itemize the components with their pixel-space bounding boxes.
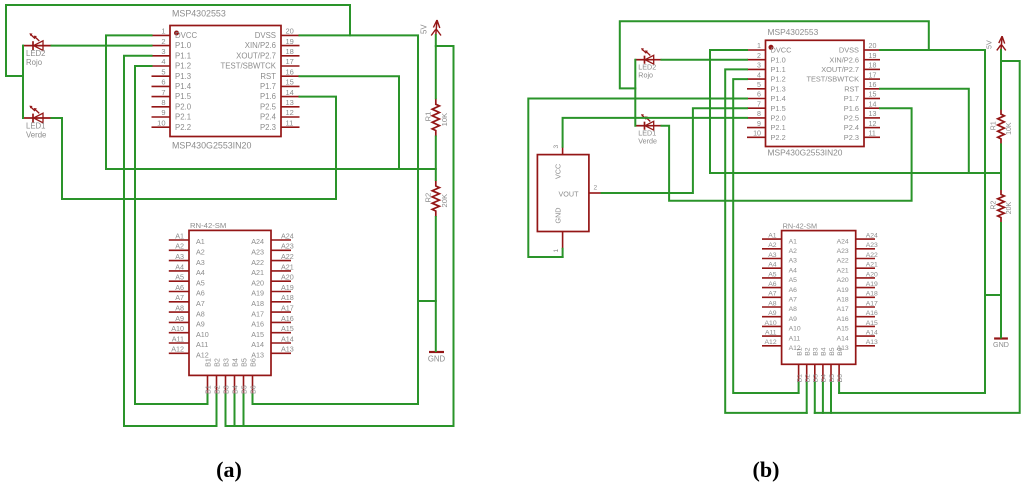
svg-text:A16: A16 (281, 314, 294, 323)
svg-text:A22: A22 (837, 258, 849, 265)
svg-text:LED1: LED1 (638, 129, 656, 137)
svg-text:A16: A16 (866, 310, 878, 317)
svg-text:B6: B6 (837, 347, 844, 356)
IC U2(a) pin B2 (212, 358, 221, 394)
svg-text:A8: A8 (789, 306, 798, 313)
svg-text:B4: B4 (821, 374, 828, 383)
IC U2(a) pin A13 (251, 345, 294, 360)
svg-text:P2.5: P2.5 (844, 114, 859, 123)
svg-text:MSP4302553: MSP4302553 (172, 9, 226, 19)
svg-text:10K: 10K (1006, 122, 1013, 135)
svg-text:P2.4: P2.4 (844, 123, 859, 132)
svg-text:(b): (b) (753, 457, 780, 482)
IC U1(a) pin 6 P1.4 (152, 78, 192, 91)
IC U1(b) pin 10 P2.2 (747, 130, 786, 142)
IC U1(a) pin 12 P2.4 (260, 108, 300, 121)
svg-text:A17: A17 (866, 300, 878, 307)
svg-text:MSP4302553: MSP4302553 (768, 27, 819, 37)
IC U2(b) pin B6 (837, 347, 844, 383)
wire (a) 5V to R1 (435, 35, 437, 98)
power label 5V (b) (986, 40, 994, 49)
IC U2(a) pin A15 (251, 324, 294, 339)
svg-text:A24: A24 (866, 233, 878, 240)
IC U1(a) value label (172, 141, 251, 151)
svg-text:P2.2: P2.2 (175, 123, 191, 132)
IC U2(a) pin A19 (251, 283, 294, 298)
svg-text:R1: R1 (423, 112, 432, 122)
svg-text:A9: A9 (789, 316, 798, 323)
svg-text:P2.4: P2.4 (260, 113, 277, 122)
svg-text:20K: 20K (440, 194, 449, 208)
svg-text:P1.3: P1.3 (771, 84, 786, 93)
IC U2(b) pin A5 (762, 271, 797, 284)
svg-text:DVSS: DVSS (255, 31, 276, 40)
wire (a) B5 drop (243, 395, 245, 427)
svg-text:P1.7: P1.7 (844, 94, 859, 103)
svg-text:9: 9 (757, 120, 761, 128)
wire (a) RST to divider junction (300, 76, 400, 169)
IC U2(a) pin A5 (169, 273, 205, 288)
svg-text:B6: B6 (248, 385, 257, 394)
IC U1(b) pin 4 P1.2 (747, 71, 786, 83)
svg-text:18: 18 (286, 47, 294, 56)
svg-text:XOUT/P2.7: XOUT/P2.7 (821, 65, 859, 74)
wire (b) P2.0 to sensor VCC (563, 118, 747, 147)
svg-text:A23: A23 (837, 248, 849, 255)
IC U1(a) pin 18 XOUT/P2.7 (236, 47, 299, 60)
svg-text:A18: A18 (251, 299, 264, 308)
svg-text:RST: RST (844, 84, 859, 93)
svg-text:A15: A15 (281, 324, 294, 333)
svg-text:A22: A22 (866, 252, 878, 259)
IC U2(a) pin B3 (221, 358, 230, 394)
IC U1(b) pin 11 P2.3 (844, 130, 880, 142)
svg-text:A22: A22 (251, 258, 264, 267)
IC U2(a) pin A7 (169, 293, 205, 308)
IC U1(b) pin 19 XIN/P2.6 (829, 52, 880, 64)
resistor R1 labels (991, 121, 1014, 135)
svg-text:A11: A11 (196, 340, 208, 349)
svg-text:A12: A12 (765, 339, 777, 346)
svg-text:TEST/SBWTCK: TEST/SBWTCK (806, 75, 859, 84)
IC U2(a) pin A18 (251, 293, 294, 308)
IC U2(a) pin A6 (169, 283, 205, 298)
svg-text:4: 4 (161, 57, 165, 66)
IC U2(b) pin B2 (805, 347, 812, 383)
svg-text:MSP430G2553IN20: MSP430G2553IN20 (172, 141, 251, 151)
IC U2(a) pin A10 (169, 324, 209, 339)
svg-text:A8: A8 (196, 309, 205, 318)
svg-text:1: 1 (757, 42, 761, 50)
wire (a) B6 drop (252, 395, 254, 405)
wire (b) LED2 anode to P1.0 (662, 59, 748, 61)
svg-text:DVCC: DVCC (175, 31, 197, 40)
svg-text:13: 13 (869, 110, 877, 118)
svg-text:P2.1: P2.1 (771, 123, 786, 132)
svg-text:P1.6: P1.6 (260, 92, 276, 101)
svg-text:P1.0: P1.0 (771, 55, 786, 64)
svg-text:P1.7: P1.7 (260, 82, 276, 91)
IC U2(b) RN-42-SM body (782, 231, 856, 365)
IC U2(b) pin A15 (837, 320, 878, 333)
svg-text:A4: A4 (789, 267, 798, 274)
IC U2(b) pin A12 (762, 339, 801, 352)
IC U1(b) pin 17 TEST/SBWTCK (806, 71, 880, 83)
IC U2(b) pin A11 (762, 330, 800, 343)
IC U1(b) pin 5 P1.3 (747, 81, 786, 93)
svg-text:P1.2: P1.2 (175, 62, 191, 71)
svg-text:B1: B1 (203, 385, 212, 394)
svg-text:B1: B1 (203, 358, 212, 367)
IC U1(a) pin 17 TEST/SBWTCK (221, 57, 300, 70)
svg-text:16: 16 (286, 67, 294, 76)
svg-text:A1: A1 (768, 233, 777, 240)
svg-text:A10: A10 (196, 330, 209, 339)
IC U1(b) pin 9 P2.1 (747, 120, 786, 132)
svg-text:A20: A20 (281, 273, 294, 282)
svg-text:A2: A2 (789, 248, 798, 255)
svg-text:P1.2: P1.2 (771, 75, 786, 84)
IC U2(a) pin B6 (248, 358, 257, 394)
power symbol 5V (a) (431, 20, 441, 36)
svg-text:P1.5: P1.5 (771, 104, 786, 113)
IC U2(a) pin A22 (251, 252, 294, 267)
svg-text:LED2: LED2 (638, 63, 656, 71)
svg-text:P1.5: P1.5 (175, 92, 192, 101)
IC U1(a) MSP430 body (170, 26, 281, 137)
svg-text:B3: B3 (813, 347, 820, 356)
svg-text:A19: A19 (866, 281, 878, 288)
IC U1(b) pin 1 DVCC (747, 42, 792, 54)
IC U1(b) pin 20 DVSS (839, 42, 880, 54)
svg-text:RN-42-SM: RN-42-SM (190, 221, 226, 230)
LED LED2 labels (26, 49, 46, 67)
svg-text:A8: A8 (768, 300, 777, 307)
IC U3(b) pin 3 stub (553, 145, 563, 155)
IC U1(a) pin 14 P1.6 (260, 88, 300, 101)
svg-text:7: 7 (757, 100, 761, 108)
wire (a) R2 to GND (435, 217, 437, 351)
wire (a) 5V branch to B3-B5 (226, 46, 454, 426)
IC U1(a) pin 1 DVCC (152, 27, 198, 40)
svg-text:R2: R2 (423, 193, 432, 203)
svg-text:A3: A3 (175, 252, 184, 261)
svg-text:B1: B1 (796, 347, 803, 356)
svg-text:A1: A1 (196, 237, 205, 246)
IC U2(b) pin A21 (837, 262, 878, 275)
svg-text:1: 1 (553, 249, 560, 253)
svg-text:A6: A6 (789, 287, 798, 294)
svg-text:Rojo: Rojo (638, 71, 653, 79)
wire (a) B3 drop (225, 395, 227, 427)
svg-text:Verde: Verde (26, 130, 46, 139)
IC U2(a) pin B5 (239, 358, 248, 394)
IC U3(b) pin GND name (554, 208, 563, 224)
wire (b) P1.5 to sensor VOUT (602, 108, 747, 193)
svg-text:P1.6: P1.6 (844, 104, 859, 113)
ground symbol (a) (429, 351, 444, 353)
wire (b) B2 drop (806, 383, 808, 413)
svg-text:A9: A9 (175, 314, 184, 323)
wire (b) P1.2 to B1 (733, 79, 798, 393)
IC U2(b) pin A20 (837, 271, 878, 284)
IC U1(b) name label (768, 27, 819, 37)
svg-text:A6: A6 (175, 283, 184, 292)
wire (b) B6 drop (838, 383, 840, 393)
svg-text:TEST/SBWTCK: TEST/SBWTCK (221, 62, 277, 71)
svg-text:1: 1 (161, 27, 165, 36)
IC U2(b) pin A22 (837, 252, 878, 265)
svg-text:A16: A16 (251, 320, 264, 329)
svg-text:A18: A18 (837, 297, 849, 304)
LED LED2 labels (638, 63, 656, 79)
IC U2(a) pin A14 (251, 334, 294, 349)
IC U3(b) pin 2 stub (589, 185, 602, 194)
svg-text:A10: A10 (171, 324, 184, 333)
svg-text:P2.0: P2.0 (771, 114, 786, 123)
svg-text:A14: A14 (837, 335, 849, 342)
IC U2(b) pin A19 (837, 281, 878, 294)
svg-text:2: 2 (161, 37, 165, 46)
IC U2(b) pin A1 (762, 233, 797, 246)
svg-text:B2: B2 (212, 358, 221, 367)
svg-text:A9: A9 (768, 310, 777, 317)
IC U2(a) pin A16 (251, 314, 294, 329)
wire (a) LED2 anode to P1.0 (52, 45, 152, 47)
svg-text:3: 3 (553, 145, 560, 149)
svg-text:B5: B5 (239, 385, 248, 394)
svg-text:P2.0: P2.0 (175, 102, 192, 111)
svg-text:18: 18 (869, 62, 877, 70)
IC U2(a) pin A17 (251, 304, 294, 319)
IC U1(a) pin 16 RST (260, 67, 299, 80)
svg-text:R1: R1 (991, 121, 998, 130)
resistor R2 20K (998, 189, 1005, 223)
wire (b) LED2 cathode to LED1 cathode (634, 60, 636, 126)
IC U2(a) pin A1 (169, 231, 205, 246)
svg-text:A5: A5 (175, 273, 184, 282)
IC U2(a) pin A12 (169, 345, 209, 360)
wire (b) top rail DVSS to LEDs (620, 21, 929, 88)
svg-text:5V: 5V (986, 40, 994, 49)
svg-text:XIN/P2.6: XIN/P2.6 (829, 55, 859, 64)
svg-text:RN-42-SM: RN-42-SM (783, 222, 817, 231)
svg-text:14: 14 (286, 88, 294, 97)
caption (a) (216, 457, 242, 482)
ground symbol (b) (994, 337, 1008, 339)
IC U1(a) pin 19 XIN/P2.6 (245, 37, 300, 50)
svg-text:P1.0: P1.0 (175, 41, 192, 50)
svg-text:11: 11 (869, 130, 876, 138)
IC U1(a) pin 5 P1.3 (152, 67, 192, 80)
IC U1(b) pin 12 P2.4 (844, 120, 880, 132)
svg-text:Verde: Verde (638, 137, 657, 145)
svg-text:A14: A14 (866, 330, 878, 337)
svg-text:GND: GND (993, 341, 1009, 349)
svg-text:A21: A21 (251, 268, 264, 277)
svg-text:B2: B2 (805, 347, 812, 356)
wire (a) LED2 cathode to LED1 cathode (22, 46, 24, 118)
svg-text:19: 19 (869, 52, 877, 60)
svg-text:11: 11 (286, 118, 294, 127)
wire (b) DVCC divider junction line (710, 50, 1001, 173)
svg-text:3: 3 (161, 47, 165, 56)
IC U2(a) RN-42-SM body (189, 230, 271, 375)
IC U1(a) pin 2 P1.0 (152, 37, 192, 50)
IC U3(b) pin VCC name (554, 164, 563, 179)
IC U2(b) pin A7 (762, 291, 797, 304)
svg-text:14: 14 (869, 100, 877, 108)
power label 5V (a) (419, 24, 428, 34)
LED LED2 (Rojo) (635, 48, 661, 64)
svg-text:A23: A23 (866, 242, 878, 249)
wire (b) sensor GND pin drop (562, 249, 564, 257)
IC U2(b) pin A18 (837, 291, 878, 304)
IC U2(a) pin A9 (169, 314, 205, 329)
svg-text:R2: R2 (991, 201, 998, 210)
IC U2(a) pin A21 (251, 262, 294, 277)
svg-text:A13: A13 (281, 345, 294, 354)
svg-text:A20: A20 (866, 271, 878, 278)
svg-text:A10: A10 (789, 326, 801, 333)
svg-text:10: 10 (753, 130, 761, 138)
IC U2(b) pin A4 (762, 262, 797, 275)
wire (a) top rail DVSS to LEDs (6, 5, 350, 76)
wire (a) B1 drop (207, 395, 209, 405)
IC U2(a) name label (190, 221, 226, 230)
svg-text:P2.3: P2.3 (260, 123, 276, 132)
svg-text:17: 17 (869, 71, 877, 79)
IC U3(b) sensor body (537, 155, 589, 232)
svg-text:A20: A20 (837, 277, 849, 284)
svg-text:A5: A5 (789, 277, 798, 284)
svg-text:A11: A11 (765, 330, 777, 337)
resistor R1 labels (423, 112, 449, 127)
LED LED1 labels (26, 122, 46, 140)
IC U2(a) pin A3 (169, 252, 205, 267)
caption (b) (753, 457, 780, 482)
IC U2(b) pin A2 (762, 242, 797, 255)
wire (a) B2 drop (216, 395, 218, 427)
svg-text:10K: 10K (440, 113, 449, 127)
wire (b) P1.6 to LED1 anode (662, 108, 912, 201)
IC U2(a) pin A23 (251, 242, 294, 257)
svg-text:A2: A2 (196, 248, 205, 257)
svg-text:A18: A18 (281, 293, 294, 302)
IC U2(b) pin A3 (762, 252, 797, 265)
svg-text:A4: A4 (196, 268, 205, 277)
wire (b) P1.4 to sensor GND (528, 99, 747, 258)
IC U1(b) pin-1 dot (769, 45, 774, 50)
svg-text:A23: A23 (251, 248, 264, 257)
svg-text:B6: B6 (248, 358, 257, 367)
IC U1(b) pin 14 P1.6 (844, 100, 880, 112)
IC U1(b) pin 3 P1.1 (747, 62, 786, 74)
IC U2(b) pin B4 (821, 347, 828, 383)
svg-text:A4: A4 (175, 262, 184, 271)
IC U3(b) pin 1 stub (553, 232, 563, 253)
wire (b) B5 drop (830, 383, 832, 413)
svg-text:A17: A17 (281, 304, 294, 313)
wire (b) P1.1 to B2 (725, 69, 807, 413)
svg-text:A6: A6 (196, 289, 205, 298)
svg-text:B3: B3 (221, 385, 230, 394)
svg-text:A21: A21 (866, 262, 878, 269)
svg-text:6: 6 (161, 78, 165, 87)
svg-text:A11: A11 (789, 335, 801, 342)
svg-text:20: 20 (286, 27, 294, 36)
svg-text:P2.3: P2.3 (844, 133, 859, 142)
IC U1(a) pin 7 P1.5 (152, 88, 192, 101)
svg-text:A19: A19 (281, 283, 294, 292)
svg-text:A2: A2 (175, 242, 184, 251)
svg-text:A23: A23 (281, 242, 294, 251)
IC U1(a) pin 10 P2.2 (152, 118, 192, 131)
wire (b) 5V branch to B3-B5 (815, 61, 1020, 413)
svg-text:7: 7 (161, 88, 165, 97)
IC U1(b) pin 2 P1.0 (747, 52, 786, 64)
svg-text:A7: A7 (768, 291, 777, 298)
svg-text:XOUT/P2.7: XOUT/P2.7 (236, 51, 276, 60)
IC U2(b) pin A23 (837, 242, 878, 255)
svg-text:A13: A13 (866, 339, 878, 346)
svg-text:A21: A21 (837, 267, 849, 274)
IC U1(b) pin 7 P1.5 (747, 100, 786, 112)
svg-text:B4: B4 (821, 347, 828, 356)
svg-text:A14: A14 (281, 334, 294, 343)
wire (b) B3 drop (814, 383, 816, 413)
wire (b) R2 to GND (1000, 223, 1002, 338)
wire (a) P1.6 to LED1 anode (52, 97, 337, 199)
svg-text:P1.1: P1.1 (771, 65, 786, 74)
ground label (a) (428, 355, 446, 364)
svg-text:B2: B2 (212, 385, 221, 394)
IC U2(b) pin A14 (837, 330, 878, 343)
IC U2(a) pin A11 (169, 334, 208, 349)
svg-text:6: 6 (757, 91, 761, 99)
svg-text:A24: A24 (281, 231, 294, 240)
svg-text:12: 12 (286, 108, 294, 117)
svg-text:10: 10 (157, 118, 165, 127)
IC U1(b) pin 6 P1.4 (747, 91, 786, 103)
svg-text:5: 5 (757, 81, 761, 89)
IC U2(b) pin A13 (837, 339, 878, 352)
svg-text:2: 2 (594, 185, 598, 192)
IC U2(b) pin A16 (837, 310, 878, 323)
IC U1(a) pin 15 P1.7 (260, 78, 300, 91)
svg-text:B1: B1 (796, 374, 803, 383)
svg-text:B4: B4 (230, 385, 239, 394)
IC U2(a) pin A2 (169, 242, 205, 257)
svg-text:19: 19 (286, 37, 294, 46)
svg-text:P1.4: P1.4 (771, 94, 786, 103)
svg-text:15: 15 (869, 91, 877, 99)
wire (b) 5V to R1 (1000, 50, 1002, 109)
svg-text:B4: B4 (230, 358, 239, 367)
IC U2(b) pin A9 (762, 310, 797, 323)
svg-text:A20: A20 (251, 278, 264, 287)
IC U1(a) pin 20 DVSS (255, 27, 300, 40)
power symbol 5V (b) (997, 36, 1006, 50)
svg-text:A6: A6 (768, 281, 777, 288)
wire (a) R1 to R2 (435, 137, 437, 181)
svg-text:20K: 20K (1006, 202, 1013, 215)
svg-text:LED2: LED2 (26, 49, 46, 58)
svg-text:9: 9 (161, 108, 165, 117)
svg-text:B3: B3 (221, 358, 230, 367)
wire (a) DVSS tie to GND chain (418, 300, 436, 302)
LED LED1 (Verde) (635, 114, 661, 130)
